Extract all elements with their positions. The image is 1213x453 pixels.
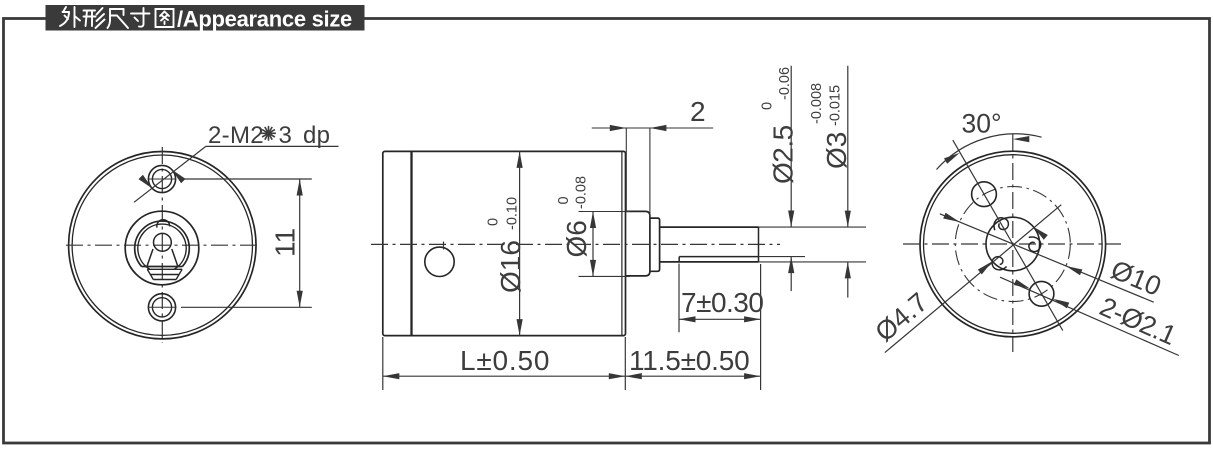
- dim 11 line: [299, 179, 301, 307]
- svg-text:0: 0: [760, 102, 776, 110]
- ring top notch: [157, 220, 170, 228]
- bottom tab trapezoid: [147, 269, 182, 279]
- dim 7±0.30: [678, 264, 680, 333]
- left view vertical centerline: [161, 147, 163, 343]
- leader arrow at hole upper-right: [172, 169, 186, 183]
- left view outer circle (motor face): [69, 152, 256, 339]
- right view vertical centerline: [1012, 134, 1014, 352]
- arc arrow left: [944, 153, 960, 164]
- dim Ø6: [579, 211, 631, 213]
- svg-text:2-Ø2.1: 2-Ø2.1: [1095, 291, 1180, 350]
- dim 11 extension lines: [181, 178, 312, 180]
- leader 2-M2: [134, 146, 206, 202]
- dia2.1 arrow lower: [1053, 299, 1069, 308]
- svg-text:-0.015: -0.015: [828, 85, 844, 126]
- dim 11.5±0.50: [760, 264, 762, 390]
- dia2.1 arrow upper: [1014, 279, 1030, 288]
- 30 deg slant line through holes: [953, 140, 1063, 331]
- front boss (dia6 x 2): [626, 211, 650, 276]
- bushing ring inner arc with flat: [138, 224, 186, 269]
- shaft end face: [758, 227, 760, 262]
- middle view centerline: [371, 243, 780, 245]
- arc arrow right: [1013, 136, 1030, 142]
- dim L±0.50: [382, 337, 384, 390]
- svg-text:-0.08: -0.08: [574, 176, 590, 209]
- svg-text:2: 2: [690, 96, 706, 127]
- motor body outline: [383, 151, 626, 335]
- dim 2 (boss width): [625, 128, 627, 211]
- dim Ø3: [847, 66, 849, 227]
- title bar: [46, 5, 365, 31]
- svg-text:7±0.30: 7±0.30: [681, 287, 763, 318]
- svg-text:11.5±0.50: 11.5±0.50: [629, 345, 749, 376]
- svg-text:3: 3: [279, 122, 292, 149]
- right view outer circle: [920, 151, 1106, 337]
- mounting hole bottom (M2): [148, 294, 175, 321]
- dim Ø2.5: [790, 66, 792, 227]
- asterisk star: [261, 132, 276, 134]
- svg-text:Ø6: Ø6: [561, 220, 592, 257]
- title char 图: [156, 9, 174, 27]
- title char 尺: [108, 9, 129, 28]
- shaft circle (center): [154, 233, 172, 251]
- dia10 arrow left: [943, 213, 960, 222]
- flat step: [678, 257, 680, 262]
- ext line shaft top: [759, 226, 867, 228]
- dia4.7 arrow upper: [1033, 227, 1048, 240]
- right view horizontal centerline: [903, 243, 1121, 245]
- mounting hole top (M2): [148, 165, 175, 192]
- dia 10 dimension line: [940, 214, 1154, 302]
- ext line flat: [759, 256, 806, 258]
- title char 寸: [131, 8, 150, 27]
- hub boss circle: [125, 211, 199, 285]
- end cap line: [410, 151, 412, 335]
- dia 4.7 dimension line: [885, 205, 1062, 353]
- dim Ø16: [519, 151, 521, 335]
- small vertical tick above circle: [443, 242, 445, 250]
- bolt circle dash-dot: [955, 187, 1070, 302]
- svg-text:0: 0: [486, 218, 502, 226]
- svg-text:Ø2.5: Ø2.5: [768, 125, 799, 184]
- ext line shaft bottom: [759, 261, 867, 263]
- title char 形: [84, 8, 105, 28]
- crimp hook bottom-left: [992, 257, 1007, 270]
- dia4.7 arrow lower: [978, 261, 993, 274]
- svg-text:-0.008: -0.008: [809, 83, 825, 124]
- svg-text:L±0.50: L±0.50: [460, 345, 550, 376]
- svg-text:Ø3: Ø3: [821, 132, 852, 169]
- shaft flat edge line: [679, 256, 758, 258]
- crimp hook top: [994, 218, 1008, 230]
- svg-text:2-M2: 2-M2: [208, 122, 264, 149]
- leader arrow at hole lower-left: [139, 175, 153, 189]
- bearing collar ring: [650, 218, 660, 271]
- title char 外: [60, 7, 80, 27]
- svg-text:11: 11: [270, 228, 301, 257]
- hole 2.1 upper: [972, 182, 997, 207]
- svg-text:30°: 30°: [962, 109, 1002, 139]
- left view horizontal centerline: [66, 244, 259, 246]
- svg-text:dp: dp: [303, 122, 330, 149]
- body rear seam line: [621, 152, 623, 336]
- bushing ring outer arc with flat: [135, 221, 190, 266]
- crimp hook right: [1029, 237, 1041, 252]
- 30 deg arc: [937, 134, 1042, 170]
- shaft top line: [660, 226, 759, 228]
- 2-dia2.1 leader line: [1000, 277, 1179, 355]
- svg-text:0: 0: [556, 196, 572, 204]
- center hub circle: [986, 217, 1040, 271]
- dia10 arrow right: [1066, 266, 1083, 275]
- hole 2.1 lower: [1029, 281, 1054, 306]
- shaft bottom line: [660, 261, 759, 263]
- svg-text:-0.06: -0.06: [777, 67, 793, 100]
- svg-text:/Appearance size: /Appearance size: [177, 7, 352, 32]
- svg-text:-0.10: -0.10: [505, 197, 521, 230]
- svg-text:Ø16: Ø16: [495, 240, 526, 293]
- shaft D-flat skirt lines: [147, 249, 178, 267]
- pilot hole circle on body: [425, 247, 454, 276]
